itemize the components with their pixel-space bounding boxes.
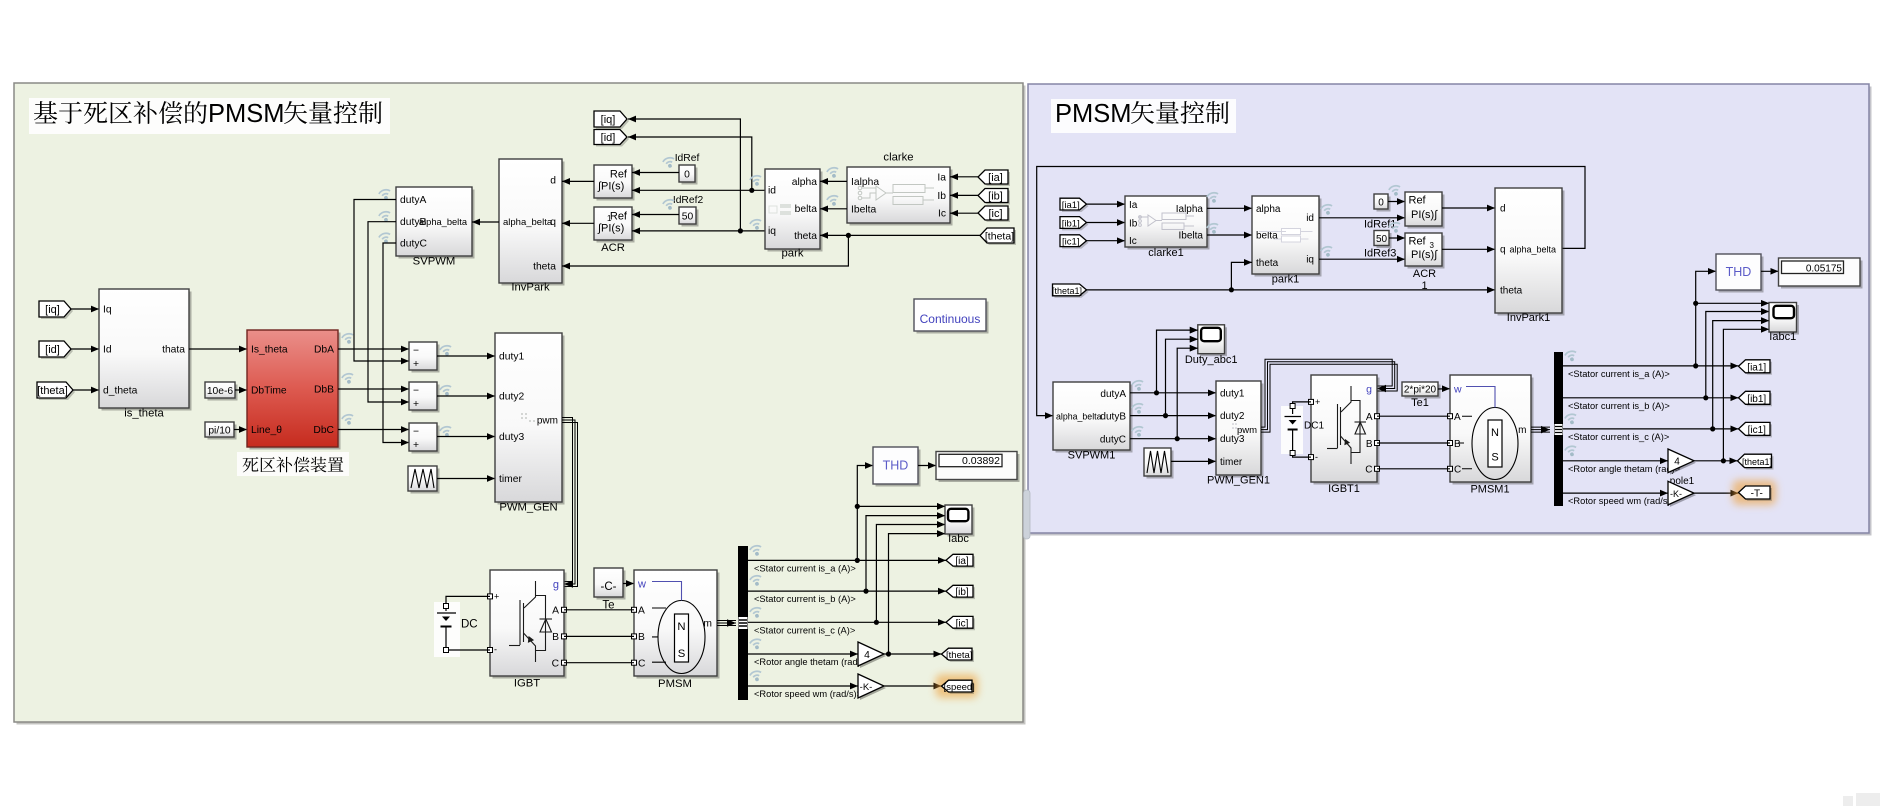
svg-text:[theta]: [theta] [985,231,1014,243]
wire [446,596,490,611]
svg-text:0: 0 [684,170,690,181]
svg-text:duty2: duty2 [499,392,524,403]
wire [857,466,873,561]
wire [1563,397,1739,399]
svg-text:∫PI(s): ∫PI(s) [597,223,624,235]
svg-text:PMSM: PMSM [1055,100,1132,128]
svg-text:C: C [1365,465,1372,476]
svg-text:A: A [638,606,645,617]
svg-text:duty3: duty3 [499,432,524,443]
svg-text:B: B [1366,439,1373,450]
svg-text:duty1: duty1 [499,352,524,363]
wire [628,137,752,190]
block THD [876,450,921,487]
goto/from tag [ia1] from [1062,200,1089,212]
goto/from tag [ic1] from [1062,237,1089,249]
block SVPWM1 [1056,385,1133,453]
svg-text:-: - [494,645,497,655]
goto/from tag [ic1] goto [1741,424,1773,437]
goto/from tag [theta1] goto [1740,456,1774,469]
wire [1166,339,1198,415]
block constant 10e-6 [208,385,238,401]
svg-text:THD: THD [1726,265,1752,279]
bus selector bar right [1554,352,1563,506]
svg-text:d: d [550,176,556,187]
wire [1696,302,1769,304]
wire [748,590,946,592]
svg-text:dutyA: dutyA [1100,389,1126,400]
svg-text:C: C [552,659,560,670]
wire [1319,258,1405,260]
wire [1377,442,1450,444]
block constant 0 right [1377,197,1391,212]
wire [1157,330,1198,393]
wire [1087,240,1126,242]
bus wire [1261,359,1392,427]
wire [73,389,99,391]
svg-text:ACR: ACR [1413,268,1436,280]
block powergui Continuous [917,302,989,334]
svg-text:SVPWM1: SVPWM1 [1068,450,1116,462]
wire [950,176,978,178]
svg-text:[ib1]: [ib1] [1747,394,1766,405]
svg-text:[ia1]: [ia1] [1062,200,1080,211]
svg-text:[theta1]: [theta1] [1052,286,1082,296]
wire [1442,248,1495,250]
wire [1377,415,1450,417]
svg-text:InvPark: InvPark [511,282,550,294]
svg-text:thata: thata [162,345,185,356]
svg-text:Line_θ: Line_θ [251,425,282,436]
wire [1207,207,1252,209]
goto/from tag -T- goto [1733,480,1777,505]
PMSM internal motor icon [658,601,705,674]
svg-text:theta: theta [1500,285,1523,296]
svg-text:DbB: DbB [314,385,334,396]
wire [1723,329,1769,461]
wire [820,234,848,236]
svg-text:g: g [553,579,559,591]
block PWM_GEN1 [1219,384,1264,478]
svg-text:[ib1]: [ib1] [1062,219,1080,230]
wire [446,627,490,650]
bus wire [717,620,736,622]
svg-text:Ia: Ia [1129,200,1138,211]
svg-text:theta: theta [794,231,817,242]
bus wire [562,418,573,582]
wire [820,180,847,182]
wire [1438,388,1450,390]
wire [1293,430,1311,457]
svg-text:alpha_belta: alpha_belta [419,217,468,227]
svg-text:SVPWM: SVPWM [413,256,456,268]
svg-text:park: park [782,248,804,260]
svg-text:PMSM: PMSM [208,100,285,128]
svg-text:alpha_belta: alpha_belta [503,217,553,228]
goto/from tag [ic] from [980,208,1010,222]
svg-text:[ia]: [ia] [955,556,969,567]
svg-text:Ref: Ref [610,211,628,223]
block constant 50 right [1377,233,1392,248]
block is_theta [102,292,192,411]
label deadzone 死区补偿装置 [237,452,349,476]
svg-text:Duty_abc1: Duty_abc1 [1185,354,1238,366]
right model panel background [1031,87,1872,536]
wire [820,208,847,210]
svg-text:IdRef3: IdRef3 [1364,248,1396,260]
block PMSM1 [1453,378,1534,485]
svg-text:Ref: Ref [610,169,628,181]
IGBT1 internal circuit [1327,386,1366,464]
wire [1389,237,1405,239]
wire [338,388,409,390]
svg-text:DbA: DbA [314,345,334,356]
goto/from tag [theta] goto [944,650,975,662]
svg-text:Iq: Iq [103,305,112,316]
svg-text:[theta]: [theta] [946,650,972,661]
goto/from tag [speed] goto [936,674,979,698]
wire [1563,365,1739,367]
block IGBT [493,573,567,679]
svg-text:dutyB: dutyB [1100,412,1126,423]
svg-text:is_theta: is_theta [124,408,164,420]
block PI controller 1 [597,168,635,201]
scrollbar thumb [1024,490,1031,539]
goto/from tag [ib] goto [948,587,975,599]
svg-text:0.03892: 0.03892 [962,455,1000,467]
svg-text:Id: Id [103,345,112,356]
svg-text:Ib: Ib [937,191,946,202]
svg-text:timer: timer [499,474,522,485]
bus selector bar [738,546,748,700]
wire [1713,321,1769,429]
block clarke [850,170,953,226]
wire [1231,262,1252,289]
svg-text:+: + [413,399,419,410]
goto/from tag [iq] goto [596,113,629,129]
svg-text:<Stator current is_c (A)>: <Stator current is_c (A)> [754,625,855,635]
wire [235,389,247,391]
block timer1 triangle wave [1147,451,1174,479]
svg-text:[ic1]: [ic1] [1062,237,1079,248]
block scope Duty_abc1 [1200,327,1227,356]
wire [71,308,99,310]
svg-text:InvPark1: InvPark1 [1507,312,1550,324]
block constant pi/10 [208,425,237,440]
svg-text:[iq]: [iq] [601,114,616,126]
svg-text:A: A [1454,412,1461,423]
svg-text:0.05175: 0.05175 [1806,264,1843,275]
svg-text:1: 1 [607,214,612,223]
svg-text:IdRef2: IdRef2 [673,195,704,206]
svg-text:w: w [1453,384,1462,396]
svg-text:Ic: Ic [938,209,946,220]
svg-text:PI(s)∫: PI(s)∫ [1411,209,1438,221]
wire [918,465,936,467]
svg-text:0: 0 [1378,198,1384,209]
svg-text:theta: theta [1256,258,1279,269]
block THD1 [1719,257,1764,293]
wire [1442,207,1495,209]
svg-text:alpha_belta: alpha_belta [1509,244,1556,254]
svg-text:Ia: Ia [937,172,946,183]
svg-text:[id]: [id] [601,132,616,144]
block park1 [1255,199,1322,277]
wire [1377,468,1450,470]
wire [884,653,942,655]
wire [1130,438,1216,440]
wire [1207,234,1252,236]
svg-text:PI(s)∫: PI(s)∫ [1411,249,1438,261]
wire [623,583,634,585]
wire [189,348,247,350]
svg-text:+: + [413,359,419,370]
svg-text:DC1: DC1 [1304,421,1324,432]
svg-text:-C-: -C- [601,581,617,593]
wire [857,505,945,507]
gain 4 right [1670,451,1696,475]
svg-text:<Rotor angle thetam (rad)>: <Rotor angle thetam (rad)> [754,657,866,667]
wire [748,621,946,623]
svg-text:Is_theta: Is_theta [251,345,288,356]
svg-text:clarke1: clarke1 [1148,247,1183,259]
svg-text:pwm: pwm [537,416,558,427]
wire [884,685,942,687]
wire [564,635,634,637]
svg-text:<Rotor angle thetam (rad)>: <Rotor angle thetam (rad)> [1568,464,1680,474]
svg-text:<Rotor speed wm (rad/s)>: <Rotor speed wm (rad/s)> [754,689,862,699]
svg-text:-K-: -K- [860,682,873,693]
wire [748,653,858,655]
svg-text:alpha_belta: alpha_belta [1056,412,1102,422]
wire [1563,492,1668,494]
block PI controller 2 [597,210,635,243]
svg-text:iq: iq [768,226,776,237]
left model panel background [17,86,1026,725]
wire [1694,492,1739,494]
svg-text:50: 50 [1376,234,1388,245]
block sum2 [412,385,440,413]
svg-text:<Stator current is_b (A)>: <Stator current is_b (A)> [754,594,856,604]
svg-text:+: + [413,440,419,451]
goto/from tag [ib] from [980,191,1010,205]
clarke1 internal icon [1139,213,1194,230]
svg-text:[theta1]: [theta1] [1742,457,1772,467]
wire [338,348,409,350]
svg-text:ACR: ACR [601,242,625,254]
svg-text:[iq]: [iq] [45,304,60,316]
svg-text:park1: park1 [1272,273,1300,285]
svg-text:THD: THD [883,459,909,473]
goto/from tag [ia1] goto [1741,362,1773,375]
svg-text:belta: belta [1256,231,1278,242]
goto/from tag [ia] goto [948,556,975,568]
wire [437,478,495,480]
IGBT internal circuit [509,581,552,662]
goto/from tag [ic] goto [948,618,975,630]
bus wire [1531,426,1550,428]
wire [1293,402,1311,414]
DC source battery [434,602,460,657]
goto/from tag [ib1] goto [1741,393,1773,406]
wire [1694,460,1738,462]
wire [564,609,634,611]
clarke internal icon [858,185,934,205]
svg-text:Ibelta: Ibelta [1179,231,1204,242]
wire [1563,428,1739,430]
wire [632,189,765,191]
svg-text:B: B [638,632,645,643]
watermark [1843,796,1853,806]
wire [1037,167,1585,416]
wire [1696,271,1716,366]
svg-text:[ib]: [ib] [988,191,1003,203]
wire [1388,201,1405,203]
svg-text:[id]: [id] [45,344,60,356]
svg-text:IGBT1: IGBT1 [1328,483,1360,495]
svg-text:50: 50 [682,212,694,223]
wire [234,429,247,431]
svg-text:timer: timer [1220,457,1243,468]
svg-text:duty2: duty2 [1220,411,1245,422]
svg-text:dutyA: dutyA [400,195,426,206]
block display 0.03892 [939,454,1020,482]
svg-text:Ref: Ref [1409,236,1427,248]
block SVPWM [399,190,475,259]
svg-text:g: g [1366,384,1372,396]
svg-text:N: N [1491,427,1499,439]
wire [1087,203,1126,205]
svg-text:A: A [552,606,559,617]
svg-text:Iabc1: Iabc1 [1769,331,1796,343]
wire [632,230,765,232]
svg-text:dutyC: dutyC [400,239,427,250]
svg-text:[ia1]: [ia1] [1747,362,1766,373]
svg-text:dutyC: dutyC [1100,435,1126,446]
wire [338,429,409,431]
svg-text:-K-: -K- [1670,489,1682,499]
svg-text:IdRef: IdRef [675,153,700,164]
svg-text:PMSM1: PMSM1 [1470,484,1509,496]
wire [632,214,679,216]
block deadzone compensator [250,333,341,450]
wire [1087,289,1496,291]
block PI controller 4 [1408,236,1445,269]
wire [1706,312,1769,398]
goto/from tag [id] from [41,343,73,359]
goto/from tag [id] goto [596,132,629,147]
svg-text:-: - [1315,452,1318,462]
svg-text:[speed]: [speed] [944,682,975,693]
block timer triangle wave [411,469,440,494]
wire [562,180,594,182]
wire [1171,460,1216,462]
goto/from tag [theta1] from [1055,286,1089,298]
block scope Iabc1 [1772,305,1800,335]
wire [748,559,946,561]
svg-text:DbTime: DbTime [251,386,287,397]
svg-text:−: − [413,427,419,438]
block InvPark [502,162,565,286]
wire [562,235,980,266]
svg-text:Ibelta: Ibelta [851,204,876,215]
svg-text:<Stator current is_c (A)>: <Stator current is_c (A)> [1568,432,1669,442]
block InvPark1 [1498,191,1565,316]
svg-text:PMSM: PMSM [658,678,692,690]
wire [1761,270,1779,272]
block park [768,172,823,252]
block scope Iabc [948,508,975,537]
svg-text:<Stator current is_b (A)>: <Stator current is_b (A)> [1568,401,1670,411]
svg-text:m: m [1518,425,1526,436]
svg-text:Te1: Te1 [1411,397,1429,409]
svg-text:id: id [1306,213,1314,224]
wire [1563,460,1668,462]
DC1 source battery [1281,406,1303,454]
block IGBT1 [1314,378,1380,485]
svg-text:PWM_GEN1: PWM_GEN1 [1207,475,1270,487]
svg-text:Ib: Ib [1129,218,1138,229]
svg-text:[theta]: [theta] [37,385,68,397]
svg-text:DbC: DbC [313,425,334,436]
svg-text:theta: theta [533,262,556,273]
wire [472,221,499,223]
svg-text:A: A [1366,412,1373,423]
wire [748,685,858,687]
svg-text:Ref: Ref [1409,195,1427,207]
wire [876,525,945,623]
goto/from tag [iq] from [41,303,73,319]
wire [889,534,946,654]
wire [1177,348,1198,439]
svg-text:−: − [413,386,419,397]
svg-text:Ic: Ic [1129,236,1137,247]
goto/from tag [theta] from feeder [982,230,1016,245]
wire [1087,222,1126,224]
wire [1319,217,1405,219]
svg-text:DC: DC [461,619,478,631]
wire [632,172,679,174]
wire [71,348,99,350]
svg-text:q: q [1500,244,1506,255]
gain -K- speed [860,676,886,700]
right title [1051,99,1236,133]
wire [1130,392,1216,394]
svg-text:Continuous: Continuous [920,312,981,326]
svg-text:d: d [1500,204,1506,215]
svg-text:id: id [768,186,776,197]
svg-text:IGBT: IGBT [514,678,540,690]
svg-text:w: w [637,579,646,591]
block display 0.05175 [1781,261,1863,289]
svg-text:N: N [677,621,685,633]
svg-text:<Rotor speed wm (rad/s)>: <Rotor speed wm (rad/s)> [1568,496,1676,506]
svg-text:Iabc: Iabc [948,533,969,545]
wire [628,119,740,231]
goto/from tag [ia] from [980,172,1010,186]
svg-text:2*pi*20: 2*pi*20 [1404,385,1437,396]
wire [437,436,495,438]
svg-text:C: C [1454,465,1461,476]
svg-text:<Stator current is_a (A)>: <Stator current is_a (A)> [1568,369,1670,379]
wire [950,194,978,196]
svg-text:+: + [1315,397,1320,407]
svg-text:PWM_GEN: PWM_GEN [499,502,557,514]
svg-text:[ic1]: [ic1] [1748,425,1767,436]
svg-text:C: C [638,659,646,670]
wire [354,200,409,362]
svg-text:[ib]: [ib] [955,587,969,598]
